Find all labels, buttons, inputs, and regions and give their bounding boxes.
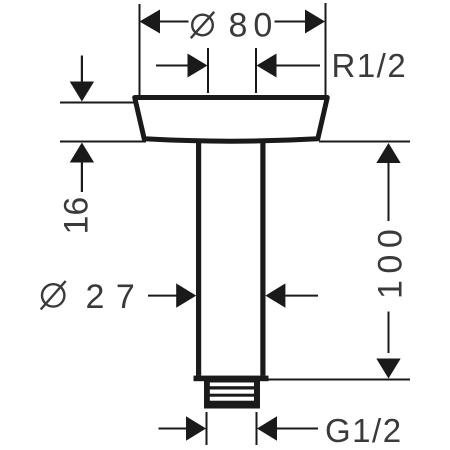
R1/2 dimension right arrow pointing left	[257, 54, 277, 78]
dia27 dimension left arrow pointing right	[176, 283, 196, 307]
ceiling reference line left at flange top	[60, 102, 136, 104]
G1/2 dimension right tail line	[277, 428, 318, 430]
thread white slot 1	[210, 383, 254, 387]
extension line left of dia80 dimension	[139, 4, 141, 96]
thread white slot 3	[210, 397, 254, 401]
16 dimension down arrow	[70, 82, 94, 102]
svg-text:100: 100	[372, 223, 410, 299]
R1/2 dimension left arrow pointing right	[188, 54, 208, 78]
extension line right shared by dia80 and R1/2 dimensions	[325, 3, 327, 96]
G1/2 dimension left tail line	[159, 428, 188, 430]
threaded end block	[204, 381, 260, 409]
svg-text:G1/2: G1/2	[325, 412, 403, 449]
100 dimension up arrow	[376, 143, 400, 163]
diameter symbol of dia27 label	[41, 281, 66, 310]
100 dimension upper line segment	[388, 162, 390, 221]
extension line right at flange bottom for 100 dimension	[319, 141, 410, 143]
diameter symbol of dia80 label	[191, 12, 214, 38]
16 dimension upper leader line	[81, 56, 83, 83]
escutcheon flange outline	[135, 98, 328, 142]
G1/2 dimension tick right	[256, 412, 258, 445]
G1/2 dimension left arrow pointing right	[186, 416, 206, 440]
svg-text:27: 27	[86, 278, 147, 316]
dia80 dimension right tail line	[275, 21, 306, 23]
R1/2 dimension left tail line	[156, 65, 188, 67]
100 dimension lower line segment	[388, 312, 390, 354]
R1/2 dimension tick left	[207, 48, 209, 93]
G1/2 dimension right arrow pointing left	[257, 416, 277, 440]
extension line left at flange bottom	[60, 141, 146, 143]
pipe bottom shoulder band	[194, 376, 269, 382]
16 dimension lower leader line	[81, 162, 83, 192]
pipe wall left	[196, 139, 201, 376]
dia80 dimension left tail line	[159, 21, 189, 23]
R1/2 dimension tick right	[255, 48, 257, 93]
svg-text:80: 80	[229, 7, 279, 45]
dia80 dimension left arrow	[140, 10, 161, 34]
dia27 dimension right tail line	[285, 295, 318, 297]
100 dimension down arrow	[376, 359, 400, 379]
G1/2 dimension tick left	[206, 412, 208, 445]
R1/2 dimension right tail line	[277, 65, 321, 67]
pipe wall right	[260, 139, 265, 376]
dia27 dimension left tail line	[148, 295, 177, 297]
thread white slot 2	[210, 390, 254, 394]
dia80 dimension right arrow	[305, 10, 325, 34]
extension line right at pipe bottom for 100 dimension	[266, 379, 410, 381]
svg-text:16: 16	[58, 197, 96, 235]
16 dimension up arrow	[70, 143, 94, 163]
dia27 dimension right arrow pointing left	[265, 283, 285, 307]
svg-text:R1/2: R1/2	[332, 47, 408, 84]
